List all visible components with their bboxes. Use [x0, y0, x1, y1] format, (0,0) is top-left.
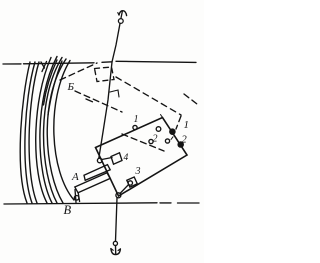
- upper prong finger: [84, 165, 110, 181]
- open circle 2a: [149, 139, 153, 143]
- arc 2: [25, 62, 35, 203]
- lower prong finger: [75, 173, 110, 193]
- tick by circle 2b: [171, 137, 173, 140]
- tick at beam top-right corner: [161, 115, 163, 118]
- open circle 1b: [156, 127, 161, 132]
- dashed line D2a: [75, 91, 122, 112]
- arc flick above line: [41, 62, 47, 72]
- top anchor stem: [121, 12, 122, 19]
- dashed clamp rectangle (upper): [95, 67, 115, 82]
- arc 1: [20, 62, 30, 203]
- clamp 3 rod: [120, 185, 128, 194]
- bottom anchor arms: [111, 249, 121, 255]
- open circle 1a: [133, 125, 137, 129]
- arc 6: [44, 58, 62, 204]
- svg-text:3: 3: [134, 166, 140, 177]
- dashed line D1 (upper-left): [60, 63, 97, 80]
- short inner arc a: [44, 60, 58, 105]
- top ground line: [3, 61, 196, 64]
- short inner arc b: [48, 61, 62, 115]
- top anchor barb: [118, 13, 119, 15]
- bottom anchor barb left: [111, 249, 113, 251]
- filled dot on right edge (2): [178, 142, 183, 147]
- clamp 3 rectangle: [127, 177, 138, 187]
- top anchor crown: [119, 11, 127, 16]
- svg-text:В: В: [63, 203, 71, 217]
- dashed line D2b: [122, 134, 164, 151]
- dashed line D3 (to right corner): [116, 77, 181, 115]
- svg-text:2: 2: [181, 135, 187, 146]
- clamp 4 circle: [97, 158, 102, 163]
- arc 5: [40, 57, 57, 204]
- dashed small corner mark: [110, 90, 119, 97]
- arc 3: [29, 62, 39, 203]
- beam (solid quadrilateral): [96, 118, 188, 197]
- arc 7: [47, 59, 66, 203]
- dashed extra short dash below D2a: [86, 99, 93, 102]
- arc 4: [36, 58, 51, 204]
- svg-text:1: 1: [133, 114, 138, 125]
- top anchor line: [99, 24, 120, 159]
- bottom ground line: [4, 203, 199, 204]
- bottom anchor line: [116, 198, 118, 241]
- top anchor ring: [118, 19, 123, 24]
- open circle 2b: [165, 139, 169, 143]
- svg-text:4: 4: [123, 153, 128, 163]
- foot circle at B: [74, 196, 79, 201]
- svg-text:2: 2: [152, 134, 157, 145]
- clamp 4 rectangle: [111, 153, 122, 164]
- filled dot on right edge (1): [170, 129, 175, 134]
- svg-text:1: 1: [183, 119, 189, 131]
- bottom anchor barb right: [118, 249, 120, 251]
- bottom anchor ring: [113, 241, 117, 245]
- dashed corner drop D4: [176, 116, 181, 129]
- lower prong end piece to ground: [75, 190, 80, 203]
- svg-text:А: А: [71, 171, 79, 183]
- clamp 3 circle: [128, 181, 132, 185]
- pivot circle at beam bottom corner: [116, 193, 121, 198]
- clamp 4 rod: [102, 158, 112, 160]
- dashed stray top-right: [184, 94, 197, 104]
- bottom anchor shank: [115, 246, 117, 254]
- arc 8: [54, 61, 74, 201]
- svg-text:Б: Б: [66, 81, 74, 93]
